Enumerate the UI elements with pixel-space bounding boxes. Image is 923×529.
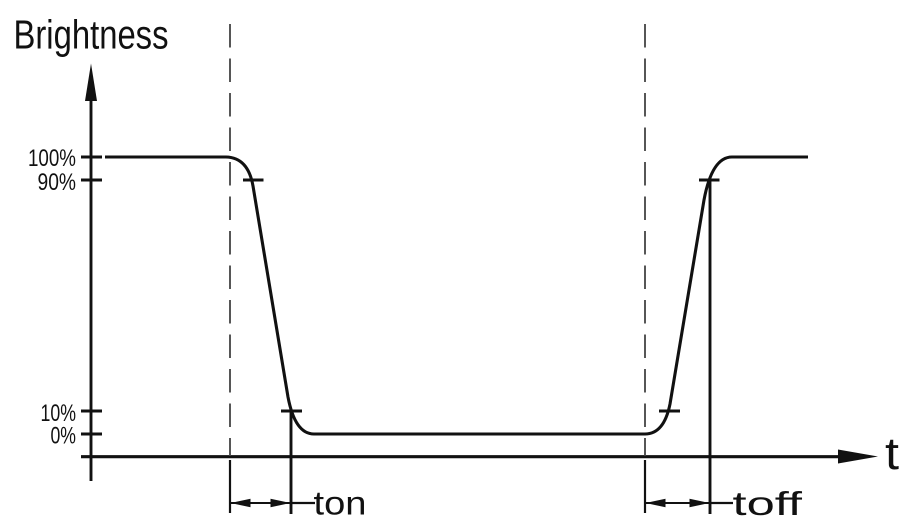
- dimension arrowhead toff left: [646, 499, 666, 507]
- svg-text:Brightness: Brightness: [14, 12, 169, 58]
- tick 10%: [81, 410, 102, 413]
- dimension arrowhead toff right: [690, 499, 710, 507]
- y-axis arrowhead: [85, 64, 97, 102]
- tick 90%: [81, 179, 102, 182]
- svg-text:toff: toff: [733, 485, 804, 522]
- tick 0%: [81, 433, 102, 436]
- measurement line ton end: [290, 411, 293, 514]
- tick 100%: [81, 156, 102, 159]
- dimension line ton: [231, 502, 291, 504]
- brightness curve: [105, 157, 808, 434]
- leader line ton: [291, 502, 315, 504]
- extension line ton start: [229, 460, 231, 513]
- curve tick 90% rising: [699, 179, 720, 182]
- svg-text:100%: 100%: [28, 145, 76, 172]
- dimension arrowhead ton left: [231, 499, 251, 507]
- dashed reference line left: [229, 24, 231, 456]
- curve tick 10% falling: [281, 410, 302, 413]
- dimension line toff: [646, 502, 710, 504]
- extension line toff start: [644, 460, 646, 513]
- svg-text:ton: ton: [314, 485, 367, 522]
- svg-text:0%: 0%: [51, 423, 77, 450]
- dashed reference line right: [644, 24, 646, 456]
- svg-text:90%: 90%: [38, 169, 77, 196]
- measurement line toff end: [709, 180, 712, 514]
- curve tick 90% falling: [243, 179, 264, 182]
- x-axis arrowhead: [838, 450, 878, 464]
- dimension arrowhead ton right: [271, 499, 291, 507]
- svg-text:t: t: [885, 428, 900, 479]
- x-axis: [81, 455, 842, 458]
- y-axis: [90, 95, 93, 481]
- curve tick 10% rising: [659, 410, 680, 413]
- leader line toff: [710, 502, 733, 504]
